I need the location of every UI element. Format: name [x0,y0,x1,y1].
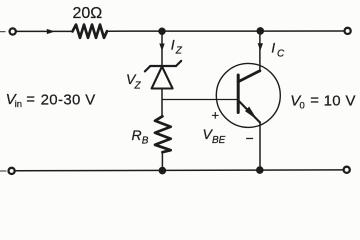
svg-text:−: − [246,130,254,146]
svg-text:B: B [142,135,149,146]
svg-text:in: in [15,99,22,110]
svg-text:0: 0 [300,100,305,111]
svg-text:I: I [271,40,275,56]
svg-text:20Ω: 20Ω [73,5,103,22]
svg-text:20-30 V: 20-30 V [41,91,96,108]
svg-text:Z: Z [134,81,142,92]
svg-text:=: = [310,92,319,109]
svg-text:R: R [132,127,142,143]
svg-text:10 V: 10 V [324,93,356,110]
svg-text:C: C [277,49,285,60]
svg-text:BE: BE [212,135,226,146]
svg-text:=: = [26,91,35,108]
svg-text:+: + [212,108,220,123]
svg-text:Z: Z [175,46,183,57]
svg-text:I: I [171,37,175,53]
